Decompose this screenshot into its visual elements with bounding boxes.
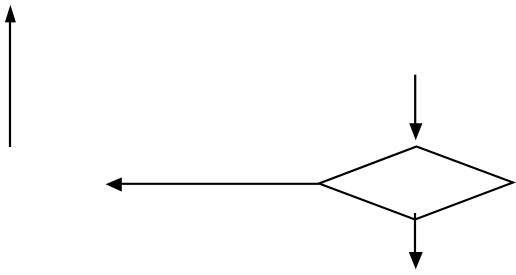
down arrow out of decision diamond [409,213,423,269]
left arrow out of decision diamond [106,177,319,191]
wire: down arrow into decision diamond [409,75,422,141]
decision diamond [319,147,513,220]
up arrow (left side, standalone) [5,5,16,147]
